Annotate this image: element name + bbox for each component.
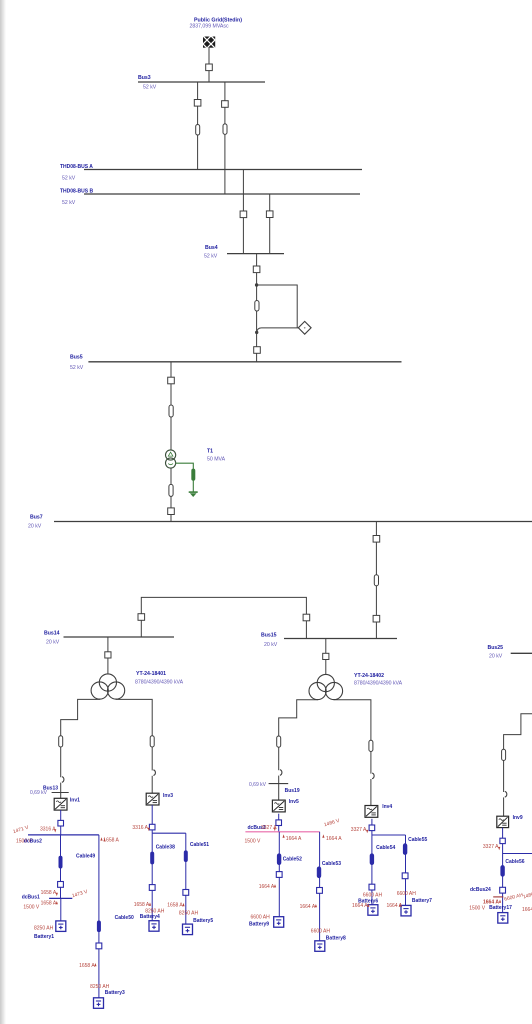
label 3327 A Inv4 [351, 827, 369, 833]
inverter Inv4 [365, 806, 378, 818]
label 1658 A below dcBus1 [41, 901, 58, 907]
fuse left secondary T4 [277, 736, 281, 747]
bus Bus25 20 kV [488, 645, 532, 660]
wire Bus5 to T1 [170, 362, 172, 450]
battery Battery5 8250 AH [179, 911, 213, 935]
breaker Cable54 [369, 884, 375, 890]
label 1658 A above dcBus1 [41, 890, 58, 896]
svg-text:THD08-BUS A: THD08-BUS A [60, 164, 93, 170]
svg-text:1500 V: 1500 V [469, 905, 486, 911]
wire arc to Bus13 [60, 783, 62, 799]
dc bus dcBus24 red segment [493, 896, 503, 898]
label 1658 A cable49 [103, 838, 105, 841]
inverter Inv3 [146, 793, 159, 805]
svg-text:1658 A: 1658 A [79, 963, 95, 969]
external grid source Public Grid(Stedin) [189, 17, 242, 58]
inverter Inv1 [54, 798, 67, 810]
breaker DC Inv9 [500, 838, 505, 843]
wire Cable55 [405, 835, 407, 905]
wire right transformer leg to Inv9 [504, 714, 532, 750]
cable fuse dcBus2-dcBus1 [59, 856, 62, 868]
svg-text:52 kV: 52 kV [62, 200, 76, 206]
wire fuse to switch arc right [151, 747, 153, 770]
wire right secondary to Inv3 [116, 699, 152, 736]
svg-text:20 kV: 20 kV [28, 523, 42, 529]
wire left secondary to Bus13 [61, 699, 100, 736]
fuse neutral grounding resistor [192, 469, 195, 481]
wire fuse to arc G5 [503, 761, 505, 793]
wire to ground [192, 481, 194, 492]
breaker below Bus5 [168, 377, 175, 384]
svg-text:Inv5: Inv5 [289, 799, 299, 805]
svg-text:8250 AH: 8250 AH [34, 925, 54, 931]
battery Battery8 6600 AH [311, 929, 346, 952]
dc junction line Inv9 [503, 853, 532, 855]
svg-text:1658 A: 1658 A [134, 902, 150, 908]
svg-text:Cable53: Cable53 [322, 861, 341, 867]
cable fuse Cable38 [151, 852, 154, 864]
svg-text:Cable49: Cable49 [76, 853, 95, 859]
cable fuse Cable54 [370, 854, 374, 865]
fuse on Bus15 feeder [374, 575, 378, 586]
wire right secondary to Inv4 [334, 699, 371, 740]
breaker DC Inv1 [58, 820, 64, 826]
svg-text:6600 AH: 6600 AH [311, 929, 331, 935]
svg-text:6600 AH: 6600 AH [363, 892, 383, 898]
svg-text:Bus5: Bus5 [70, 355, 83, 361]
switch arc left [62, 777, 64, 783]
ground symbol [189, 491, 198, 493]
dc junction line Inv3 [152, 832, 186, 834]
svg-text:3316 A: 3316 A [40, 826, 56, 832]
wire arc to Inv3 [151, 776, 153, 793]
wire fuse to arc right T4 [370, 752, 372, 774]
breaker below Bus14 [105, 652, 111, 658]
svg-text:Battery1: Battery1 [34, 934, 54, 940]
dc junction line Inv4 [372, 834, 406, 836]
switch arc right T4 [372, 773, 374, 779]
transformer T1 50 MVA [166, 449, 226, 469]
label 1664 A dcBus24 [483, 899, 501, 905]
transformer YT-24-18401 8780/4390/4390 kVA [91, 671, 184, 699]
bus Bus14 20 kV [44, 630, 174, 645]
label 1658 A feeder right [100, 837, 119, 843]
svg-text:8780/4390/4390 kVA: 8780/4390/4390 kVA [135, 679, 184, 685]
wire fuse to switch arc [60, 747, 62, 777]
svg-text:Bus19: Bus19 [285, 788, 300, 794]
battery Battery9 6600 AH [249, 914, 284, 927]
svg-text:Battery9: Battery9 [249, 921, 269, 927]
wire arc to Inv4 [370, 779, 372, 806]
svg-text:8780/4390/4390 kVA: 8780/4390/4390 kVA [354, 681, 403, 687]
svg-text:50 MVA: 50 MVA [207, 457, 226, 463]
svg-text:THD08-BUS B: THD08-BUS B [60, 188, 93, 194]
svg-text:Battery17: Battery17 [489, 905, 512, 911]
svg-text:0,69 kV: 0,69 kV [30, 790, 48, 796]
wire T1 neutral to ground [176, 463, 194, 469]
fuse right feeder [502, 749, 506, 760]
svg-text:1500 V: 1500 V [245, 839, 262, 845]
switch arc right [153, 770, 155, 776]
metering diamond [298, 321, 311, 334]
svg-text:1664 A: 1664 A [286, 836, 302, 842]
breaker Cable55 [402, 873, 408, 879]
breaker above Bus7 [168, 508, 175, 515]
svg-text:52 kV: 52 kV [143, 84, 157, 90]
label 1664 A battery9 [259, 884, 276, 890]
wire bus tie Bus14 to Bus15 [141, 597, 306, 638]
svg-text:Cable51: Cable51 [190, 842, 209, 848]
svg-text:Cable56: Cable56 [505, 859, 524, 865]
svg-text:1658 A: 1658 A [41, 890, 57, 896]
battery Battery3 8250 AH [90, 984, 125, 1008]
bus Bus13 0,69 kV [30, 785, 69, 796]
dc bus dcBus1 [22, 895, 73, 901]
bus THD08-BUS B 52 kV [60, 188, 360, 206]
wire THD08-BUS B to Bus4 [269, 194, 271, 254]
svg-text:2837,099 MVAsc: 2837,099 MVAsc [189, 24, 229, 30]
breaker Cable52 [276, 872, 282, 878]
svg-text:8250 AH: 8250 AH [90, 984, 110, 990]
wire Inv5 to dcBus3 [278, 814, 280, 832]
svg-text:Bus15: Bus15 [261, 632, 277, 638]
wire Inv3 to junction [151, 805, 153, 833]
svg-text:Cable55: Cable55 [408, 837, 427, 843]
svg-text:Public Grid(Stedin): Public Grid(Stedin) [194, 17, 242, 23]
wire Cable51 [185, 833, 187, 924]
label 1664 A battery6 [352, 903, 369, 909]
svg-text:dcBus2: dcBus2 [24, 838, 42, 844]
breaker below Bus15 [323, 653, 329, 659]
wire Bus15 to transformer YT-24-18402 [325, 639, 327, 675]
svg-text:Battery5: Battery5 [193, 918, 213, 924]
svg-text:1658 A: 1658 A [41, 901, 57, 907]
wire arc to Inv5 [278, 776, 280, 801]
wire Cable56 [502, 854, 504, 913]
breaker DC Inv4 [369, 825, 375, 831]
switch arc G5 [505, 791, 507, 797]
transformer YT-24-18402 8780/4390/4390 kVA [309, 673, 403, 700]
svg-text:Battery4: Battery4 [140, 914, 160, 920]
inverter Inv5 [272, 800, 285, 812]
svg-text:1658 A: 1658 A [167, 903, 183, 909]
svg-text:Inv9: Inv9 [513, 815, 523, 821]
cable fuse Cable49 [97, 921, 100, 932]
svg-text:1664 A: 1664 A [352, 903, 368, 909]
wire branch to metering diamond [257, 285, 298, 328]
breaker on grid feeder [206, 64, 213, 71]
breaker Cable53 [317, 888, 323, 894]
breaker Cable38 [149, 885, 155, 891]
wire Bus7 to Bus15 [375, 522, 377, 639]
battery Battery17 6600 AH [489, 905, 512, 923]
fuse on feeder A [196, 125, 200, 136]
wire arc to Inv9 [503, 797, 505, 816]
svg-text:0,69 kV: 0,69 kV [249, 782, 267, 788]
svg-text:52 kV: 52 kV [62, 176, 76, 182]
inverter Inv9 [497, 816, 509, 827]
svg-text:Cable38: Cable38 [156, 844, 175, 850]
breaker tie at Bus15 [303, 614, 310, 621]
bus Bus15 20 kV [261, 632, 397, 648]
bus Bus7 20 kV [28, 514, 532, 529]
svg-text:8250 AH: 8250 AH [179, 911, 199, 917]
bus Bus5 52 kV [70, 355, 402, 371]
fuse right secondary T4 [369, 740, 373, 751]
breaker above Bus5 [254, 347, 261, 354]
label 1658 A battery5 [167, 903, 184, 909]
svg-text:Bus14: Bus14 [44, 630, 60, 636]
svg-text:20 kV: 20 kV [46, 639, 60, 645]
fuse right secondary [150, 736, 154, 747]
cable fuse Cable55 [403, 844, 407, 855]
label 1664 A drop2 [322, 834, 342, 842]
battery Battery4 8250 AH [140, 908, 165, 931]
wire Inv1 to dcBus2 [60, 810, 62, 835]
wire Bus14 to transformer YT-24-18401 [107, 637, 109, 674]
cable fuse Cable51 [184, 851, 187, 862]
wire Cable38 [151, 833, 153, 921]
label 1658 A battery4 [134, 902, 151, 908]
svg-text:20 kV: 20 kV [264, 642, 278, 648]
svg-text:Cable52: Cable52 [283, 856, 302, 862]
fuse on Bus4 feeder [255, 300, 259, 311]
fuse left secondary [59, 736, 63, 747]
switch arc left T4 [280, 770, 282, 776]
svg-text:1664 A: 1664 A [259, 884, 275, 890]
breaker DC Inv3 [149, 824, 155, 830]
breaker bus B to Bus4 [266, 211, 273, 218]
svg-text:Bus7: Bus7 [30, 514, 43, 520]
svg-text:Bus3: Bus3 [138, 75, 151, 81]
wire Cable52 [278, 832, 280, 917]
svg-text:Battery8: Battery8 [326, 936, 346, 942]
wire fuse to arc left T4 [278, 747, 280, 770]
wire diamond return [257, 328, 299, 332]
bus Bus19 0,69 kV [249, 782, 300, 794]
dc bus dcBus3 1500 V pink [245, 832, 320, 845]
wire Bus3 to THD08-BUS A [197, 82, 199, 170]
wire dcBus1 to Battery1 [60, 898, 62, 921]
node junction lower [255, 331, 258, 334]
label 1664 A battery7 [387, 903, 403, 909]
svg-text:Bus4: Bus4 [205, 245, 218, 251]
breaker Cable51 [183, 890, 189, 896]
label 3316 A Inv3 [132, 825, 150, 831]
svg-text:20 kV: 20 kV [489, 654, 503, 660]
breaker bus A to Bus4 [240, 211, 247, 218]
wire left secondary to Bus19 [279, 699, 318, 736]
wire Bus4 to Bus5 [256, 254, 258, 362]
svg-text:Inv4: Inv4 [382, 804, 392, 810]
breaker on feeder B [222, 101, 229, 108]
label 3316 A with arrow [40, 826, 56, 832]
bus Bus3 52 kV [138, 75, 265, 90]
breaker bottom of Bus15 feeder [373, 615, 380, 622]
svg-text:Cable50: Cable50 [115, 915, 134, 921]
svg-text:Battery7: Battery7 [412, 898, 432, 904]
cable fuse Cable52 [277, 854, 281, 865]
svg-text:1664 A: 1664 A [300, 904, 316, 910]
wire Cable53 [319, 832, 321, 941]
svg-text:6600 AH: 6600 AH [251, 914, 271, 920]
svg-text:1500 V: 1500 V [23, 904, 40, 910]
wire THD08-BUS A to Bus4 [242, 170, 244, 254]
svg-text:dcBus24: dcBus24 [470, 887, 491, 893]
svg-text:Inv3: Inv3 [163, 793, 173, 799]
svg-text:6600 AH: 6600 AH [397, 891, 417, 897]
node junction upper [255, 283, 258, 286]
breaker tie at Bus14 [138, 614, 145, 621]
svg-text:YT-24-18402: YT-24-18402 [354, 673, 384, 679]
fuse on feeder B [223, 124, 227, 135]
svg-text:YT-24-18401: YT-24-18401 [136, 671, 166, 677]
svg-text:dcBus1: dcBus1 [22, 895, 40, 901]
battery Battery1 8250 AH [34, 921, 66, 940]
svg-text:1664 A: 1664 A [522, 907, 532, 913]
breaker on feeder A [194, 100, 201, 107]
wire grid to Bus3 [208, 48, 210, 82]
breaker Cable49 [96, 943, 102, 949]
battery Battery7 6600 AH [397, 891, 432, 916]
label 3327 A Inv9 [483, 844, 500, 850]
cable fuse Cable56 [501, 865, 505, 876]
bus Bus4 52 kV [204, 245, 284, 260]
label 3327 A Inv5 [261, 825, 277, 831]
svg-text:Bus25: Bus25 [488, 645, 504, 651]
breaker below Bus4 [253, 266, 260, 273]
battery Battery6 6600 AH [358, 892, 382, 915]
wire Inv4 to junction [371, 819, 373, 835]
svg-text:Cable54: Cable54 [376, 845, 395, 851]
breaker above dcBus1 [58, 882, 64, 888]
wire dcBus2 to dcBus1 [60, 835, 62, 899]
svg-text:1658 A: 1658 A [103, 838, 119, 844]
svg-text:3327 A: 3327 A [351, 827, 367, 833]
label 1664 A drop1 [283, 834, 303, 842]
svg-text:1664 A: 1664 A [326, 836, 342, 842]
svg-text:52 kV: 52 kV [70, 365, 84, 371]
wire Cable54 [371, 835, 373, 905]
breaker top of Bus15 feeder [373, 536, 380, 543]
breaker DC Inv5 [276, 820, 282, 826]
svg-text:T1: T1 [207, 449, 213, 455]
dc bus dcBus2 1500 V [16, 835, 99, 844]
label 1664 A battery8 [300, 904, 317, 910]
fuse above T1 [169, 405, 173, 417]
breaker Cable56 [500, 887, 506, 893]
svg-text:Inv1: Inv1 [70, 797, 80, 803]
wire Inv9 to junction [502, 828, 504, 854]
wire Bus3 to THD08-BUS B [224, 82, 226, 194]
left window edge [0, 0, 6, 1024]
svg-text:3327 A: 3327 A [483, 844, 499, 850]
label 1658 A battery3 [79, 963, 96, 969]
svg-text:Battery3: Battery3 [105, 990, 125, 996]
bus THD08-BUS A 52 kV [60, 164, 362, 182]
fuse below T1 [169, 484, 173, 496]
cable fuse Cable53 [317, 867, 321, 878]
wire Cable49 dcBus2 to Battery3 [98, 835, 100, 998]
svg-text:3316 A: 3316 A [132, 825, 148, 831]
wire T1 to Bus7 [170, 468, 172, 522]
svg-text:52 kV: 52 kV [204, 254, 218, 260]
